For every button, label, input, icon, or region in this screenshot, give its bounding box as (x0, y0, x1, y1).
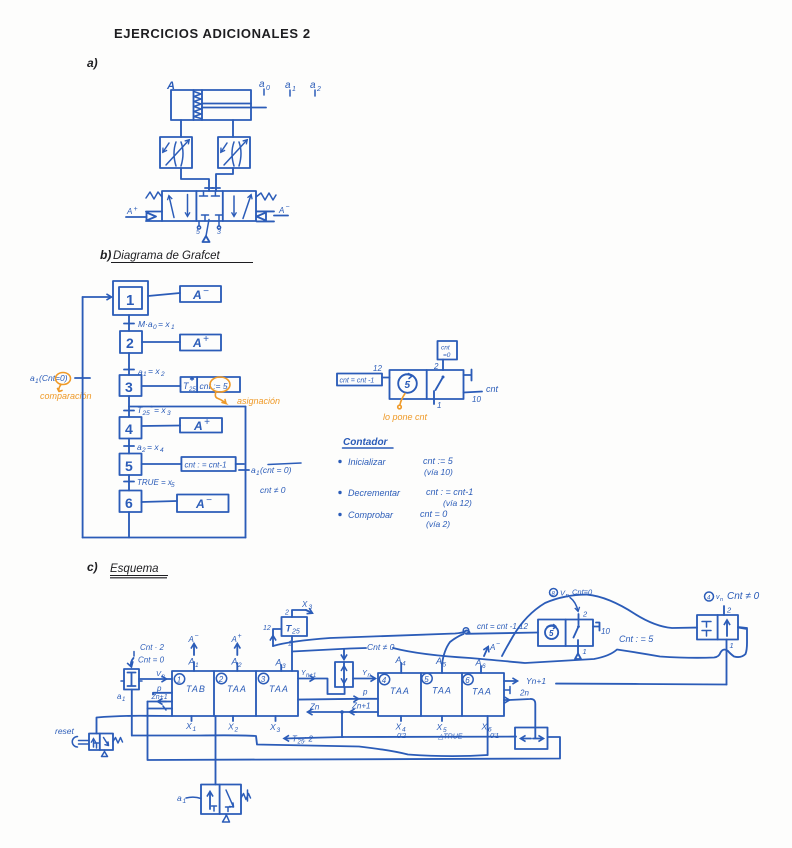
action box A- step6 (177, 495, 229, 513)
wire cylinder left port down (180, 120, 182, 137)
svg-text:Cnt=0: Cnt=0 (572, 588, 593, 597)
svg-text:5: 5 (196, 229, 200, 236)
counter label Vn cnt=0 (550, 589, 558, 597)
svg-text:p: p (362, 688, 368, 697)
svg-text:0: 0 (153, 324, 157, 331)
svg-text:Cnt ≠ 0: Cnt ≠ 0 (727, 591, 760, 602)
svg-text:A: A (475, 658, 482, 668)
svg-text:10: 10 (601, 627, 610, 636)
svg-text:A: A (231, 635, 237, 644)
svg-text:X: X (185, 721, 192, 731)
pilot A+ (146, 212, 162, 222)
svg-text:A: A (193, 419, 203, 433)
wire P between rows (298, 698, 358, 701)
svg-text:Yn+1: Yn+1 (526, 676, 546, 686)
svg-text:2: 2 (218, 675, 224, 684)
svg-text:(vía 12): (vía 12) (443, 498, 472, 508)
AND valve drop wire (131, 690, 133, 736)
svg-text:cnt: cnt (441, 345, 451, 352)
svg-text:Diagrama de Grafcet: Diagrama de Grafcet (113, 250, 221, 262)
transition tick right loop (236, 464, 249, 470)
svg-text:−: − (203, 286, 209, 297)
transition x1 (124, 323, 134, 325)
port 3 (218, 221, 220, 226)
a1 valve spring roller (241, 794, 251, 800)
svg-text:TAA: TAA (390, 686, 410, 696)
module 3 number (258, 673, 268, 683)
svg-text:n+1: n+1 (306, 673, 316, 679)
grafcet step 3 (120, 375, 142, 396)
svg-text:lo pone cnt: lo pone cnt (383, 412, 428, 422)
wavy wire W1 to X6 drop (132, 735, 488, 756)
transition x2 (124, 369, 134, 371)
counter port 10 (593, 623, 600, 631)
svg-text:6: 6 (482, 663, 486, 670)
wire left flow valve to valve port (181, 168, 213, 191)
svg-text:−: − (206, 495, 212, 506)
svg-text:3: 3 (309, 604, 313, 611)
svg-text:Comprobar: Comprobar (348, 510, 394, 520)
wire shuttle to module4 Yn (353, 678, 375, 680)
wire step3 down (128, 396, 130, 417)
svg-text:2: 2 (726, 606, 732, 615)
action box A+ step4 (180, 418, 222, 433)
svg-text:(cnt = 0): (cnt = 0) (260, 465, 292, 475)
svg-text:Decrementar: Decrementar (348, 488, 401, 498)
svg-text:A: A (188, 635, 194, 644)
svg-text:A: A (489, 643, 495, 652)
grafcet step 4 (120, 417, 142, 439)
reset valve (89, 734, 113, 751)
svg-text:1: 1 (177, 676, 181, 685)
action box A- step1 (180, 286, 221, 302)
flip flop right loop (738, 627, 747, 628)
svg-text:b): b) (100, 248, 111, 262)
svg-text:a: a (177, 793, 182, 803)
module row2 X stubs (400, 716, 402, 721)
T25 port 12 (273, 629, 282, 635)
module row 1 body (172, 671, 298, 716)
wire L port module1 (148, 708, 173, 710)
reset valve pushbutton (79, 741, 90, 745)
spring left (146, 192, 162, 199)
wire hump branch to flip-flop (502, 595, 697, 656)
svg-text:3: 3 (167, 410, 171, 417)
wire cylinder right port down (232, 120, 234, 137)
svg-text:n: n (720, 597, 723, 603)
svg-text:A: A (126, 207, 132, 216)
flow control valve right (218, 137, 250, 168)
svg-text:3: 3 (261, 675, 266, 684)
svg-text:X: X (227, 722, 234, 732)
svg-text:A: A (278, 206, 284, 215)
pilot A- (257, 211, 275, 221)
svg-text:=0: =0 (443, 352, 451, 359)
svg-text:△TRUE: △TRUE (437, 734, 463, 741)
svg-text:= x: = x (158, 319, 170, 329)
grafcet step 5 (120, 454, 142, 476)
module row 1 X stubs (191, 716, 193, 721)
svg-text:cnt : = cnt-1: cnt : = cnt-1 (185, 461, 227, 470)
svg-text:1: 1 (122, 697, 125, 703)
svg-text:2: 2 (126, 335, 134, 351)
svg-text:= x: = x (148, 366, 160, 376)
svg-text:EJERCICIOS ADICIONALES 2: EJERCICIOS ADICIONALES 2 (114, 26, 311, 41)
svg-text:TAA: TAA (472, 687, 492, 697)
timer T25 box (282, 617, 308, 636)
module 4 number (379, 674, 389, 684)
loop bottom (83, 537, 246, 539)
svg-text:Esquema: Esquema (110, 563, 159, 575)
svg-text:TAA: TAA (432, 686, 452, 696)
note comprobar (338, 513, 341, 516)
svg-text:6: 6 (125, 495, 133, 511)
svg-text:12: 12 (373, 364, 382, 373)
svg-text:−: − (496, 641, 500, 648)
svg-text:c): c) (87, 560, 98, 574)
svg-text:2: 2 (316, 86, 321, 93)
svg-text:X: X (436, 722, 443, 732)
branch line right (129, 406, 246, 408)
junction drop wire (341, 712, 343, 737)
svg-text:−: − (286, 204, 290, 211)
flip flop memory right (697, 615, 738, 640)
reset valve spring (113, 738, 123, 744)
svg-text:(vía 2): (vía 2) (426, 519, 450, 529)
counter blocked port right (464, 370, 472, 381)
svg-text:−: − (195, 633, 199, 640)
grafcet step 1 (113, 281, 148, 315)
svg-text:12: 12 (263, 625, 271, 632)
flow control valve left (160, 137, 192, 168)
flip flop port 2 (723, 606, 725, 615)
svg-text:1: 1 (143, 371, 147, 378)
svg-text:3: 3 (125, 379, 133, 395)
transition x4 (124, 445, 134, 447)
feedback bus (148, 702, 561, 761)
middle shuttle valve (335, 662, 353, 687)
svg-text:A: A (395, 655, 402, 665)
svg-text:4: 4 (382, 676, 387, 685)
svg-text:25: 25 (291, 629, 300, 636)
svg-text:+: + (134, 206, 138, 213)
wire Vn into module1 (139, 678, 166, 680)
svg-text:1: 1 (183, 798, 187, 805)
svg-text:10: 10 (472, 395, 481, 404)
A3 stub and label (280, 665, 282, 671)
svg-text:2: 2 (582, 610, 588, 619)
left loop transition a1(Cnt=0) (75, 377, 90, 379)
blocked port right edge (504, 687, 510, 694)
A4 stub and label (400, 663, 402, 673)
orange circle comparacion (56, 373, 71, 385)
action box A+ step2 (180, 335, 221, 351)
svg-text:Contador: Contador (343, 437, 389, 448)
wire cnt=0 box to counter (442, 360, 444, 371)
AND valve a1 cnt (124, 669, 139, 690)
svg-text:TAA: TAA (269, 684, 289, 694)
A5 stub label and long curve (441, 664, 443, 673)
svg-text:5: 5 (171, 482, 175, 489)
X6 drop wire (487, 716, 489, 755)
svg-text:Inicializar: Inicializar (348, 457, 387, 467)
port 5 (198, 221, 200, 226)
spring right (256, 193, 276, 200)
action box cnt:=cnt-1 (181, 457, 235, 471)
svg-text:1: 1 (730, 641, 734, 650)
wire reset riser link (97, 716, 173, 734)
svg-text:TAA: TAA (227, 684, 247, 694)
svg-text:X: X (395, 722, 402, 732)
wire Zn input from bottom shuttle (504, 699, 509, 701)
svg-text:X: X (269, 722, 276, 732)
svg-text:2: 2 (160, 371, 165, 378)
svg-text:5: 5 (424, 675, 429, 684)
counter cnt=0 box (438, 341, 458, 360)
svg-text:(vía 10): (vía 10) (424, 467, 453, 477)
svg-text:asignación: asignación (237, 396, 280, 406)
a1 valve exhaust (223, 814, 230, 822)
A2 stub and label (236, 663, 238, 671)
svg-text:cnt: cnt (486, 384, 499, 394)
svg-text:cnt = cnt -1: cnt = cnt -1 (340, 378, 375, 385)
svg-text:A: A (192, 336, 202, 350)
long Yn+1 wire to flip flop (556, 683, 727, 686)
svg-text:0: 0 (266, 85, 270, 92)
svg-text:X: X (481, 722, 488, 732)
svg-text:A: A (231, 657, 238, 667)
counter input box cnt=cnt-1 (337, 374, 382, 386)
svg-text:1: 1 (583, 647, 587, 656)
T25 output 1 down to module 3 (291, 636, 293, 671)
svg-text:Cnt = 0: Cnt = 0 (138, 656, 165, 665)
wire step5 to step6 (128, 475, 130, 491)
svg-text:A: A (188, 657, 195, 667)
svg-text:reset: reset (55, 726, 75, 736)
svg-text:3: 3 (277, 727, 281, 734)
svg-text:Zn: Zn (309, 703, 320, 712)
transition x3 (124, 410, 134, 412)
svg-text:5: 5 (549, 629, 554, 638)
svg-text:4: 4 (402, 661, 406, 668)
svg-text:2n: 2n (519, 689, 529, 698)
grafcet step 6 (120, 491, 142, 513)
svg-text:0'2: 0'2 (397, 733, 406, 740)
svg-text:0'1: 0'1 (490, 733, 499, 740)
svg-text:2: 2 (433, 362, 439, 371)
loop right vertical (245, 407, 247, 538)
T25 port 2 to X3 (292, 610, 306, 617)
svg-text:X: X (301, 600, 308, 609)
arrow into step1 (83, 296, 111, 298)
svg-text:25: 25 (188, 387, 196, 393)
svg-text:5: 5 (405, 380, 411, 391)
5/3 valve body (162, 191, 256, 221)
module 5 number (422, 673, 432, 683)
svg-text:a): a) (87, 56, 98, 70)
wire step6 down to loop (128, 512, 130, 538)
svg-text:1: 1 (193, 726, 197, 733)
svg-text:Zn+1: Zn+1 (351, 702, 370, 711)
cylinder A spring (194, 92, 201, 119)
svg-text:Zn+1: Zn+1 (151, 694, 168, 701)
grafcet step 2 (120, 331, 142, 353)
wire step2 to A+ (142, 341, 180, 343)
counter switch (442, 376, 445, 379)
orange note lo pone cnt (400, 394, 405, 405)
svg-text:1: 1 (126, 292, 134, 309)
svg-text:4: 4 (160, 447, 164, 454)
svg-text:+: + (238, 633, 242, 640)
svg-text:Cnt : = 5: Cnt : = 5 (619, 634, 654, 644)
counter circle 5 (545, 626, 558, 639)
module 6 number (463, 674, 473, 684)
svg-text:comparación: comparación (40, 391, 92, 401)
svg-text:TAB: TAB (186, 684, 206, 694)
svg-text:A: A (195, 497, 205, 511)
svg-text:A: A (275, 658, 282, 668)
svg-text:5: 5 (125, 458, 133, 474)
counter preset circle 5 (398, 374, 417, 393)
wire step2 to step3 (128, 353, 130, 375)
wire Yn+1 output right (504, 680, 517, 682)
wire input to counter (382, 377, 390, 379)
flip flop bottom port 1 (726, 640, 728, 685)
wire step4 to A+ (142, 425, 181, 428)
wire step4 to step5 (128, 439, 130, 454)
svg-text:Cnt ≠ 0: Cnt ≠ 0 (367, 642, 395, 652)
svg-text:1: 1 (437, 401, 441, 410)
svg-text:TRUE = x: TRUE = x (137, 478, 173, 487)
svg-text:+: + (204, 417, 210, 428)
cylinder A body (171, 90, 251, 120)
svg-text:cnt = 0: cnt = 0 (420, 509, 447, 519)
wire step3 to action (142, 385, 181, 387)
svg-text:cnt ≠ 0: cnt ≠ 0 (260, 485, 286, 495)
exhaust stem and triangle (206, 220, 209, 237)
wire Yn+1 from module3 (298, 678, 314, 680)
note decrementar (338, 491, 341, 494)
counter body (390, 370, 464, 399)
svg-text:: 2: : 2 (304, 735, 313, 744)
a1 pilot valve bottom (201, 785, 241, 815)
svg-text:M·a: M·a (138, 319, 153, 329)
wire step6 to A- (142, 501, 178, 502)
loop left vertical (82, 297, 84, 538)
wire T25:2 to bottom shuttle (285, 737, 344, 739)
svg-text:cnt : = cnt-1: cnt : = cnt-1 (426, 487, 473, 497)
svg-text:+: + (203, 334, 209, 345)
bottom shuttle valve (515, 728, 548, 750)
orange circle asignacion (210, 377, 230, 392)
transition x5 (124, 481, 134, 483)
wire loop at cnt net junction (463, 628, 469, 634)
wire step1 to A- (148, 293, 180, 296)
svg-text:A: A (435, 656, 442, 666)
svg-text:2: 2 (237, 662, 242, 669)
module row 2 body (378, 673, 504, 716)
svg-text:A: A (192, 288, 202, 302)
flip flop label Cnt not 0 (705, 592, 714, 601)
module 1 number (174, 674, 184, 684)
svg-text:1: 1 (292, 86, 296, 93)
wire step5 to action (142, 463, 182, 465)
wire module divider down to a1 valve (215, 716, 217, 785)
wire step1 to step2 (128, 315, 130, 331)
wire cnt not 0 net (292, 648, 366, 652)
counter output 10 cnt (464, 392, 483, 393)
svg-text:1: 1 (195, 662, 199, 669)
wire Zn between rows (308, 711, 378, 713)
svg-text:6: 6 (465, 676, 470, 685)
5/3 valve centre cell blocked ports (200, 191, 220, 196)
cylinder A rod (202, 104, 266, 108)
counter module right (538, 620, 593, 647)
wire Zn+1 port module1 (148, 701, 173, 703)
A6 stub and label (480, 666, 482, 673)
junction dot Zn (340, 710, 344, 714)
cylinder A piston (194, 90, 203, 120)
svg-text:1: 1 (171, 324, 175, 331)
note inicializar (338, 460, 341, 463)
wire P port module1 (153, 693, 172, 695)
counter switch cell (578, 620, 580, 625)
5/3 valve right cell arrows (233, 196, 235, 216)
wire right flow valve to valve port (212, 168, 233, 191)
svg-text:Cnt · 2: Cnt · 2 (140, 643, 165, 652)
5/3 valve left cell arrows (169, 196, 174, 218)
svg-text:25: 25 (142, 410, 151, 417)
svg-text:p: p (156, 684, 162, 693)
reset valve exhaust (102, 750, 108, 757)
A1 stub and label (193, 662, 195, 671)
svg-text:3: 3 (282, 663, 286, 670)
wire cnt=cnt-1 net to counter (273, 631, 538, 647)
svg-text:3: 3 (217, 229, 221, 236)
action box T25 cnt:=5 (181, 377, 241, 392)
svg-text:2: 2 (284, 610, 289, 617)
svg-text:= x: = x (154, 405, 166, 415)
svg-text:2: 2 (234, 727, 239, 734)
svg-text:(Cnt=0): (Cnt=0) (39, 373, 68, 383)
svg-text:= x: = x (147, 442, 159, 452)
module 2 number (216, 673, 226, 683)
svg-text:4: 4 (125, 421, 133, 437)
svg-text:cnt := 5: cnt := 5 (423, 456, 454, 466)
counter port 2 top (578, 614, 580, 620)
